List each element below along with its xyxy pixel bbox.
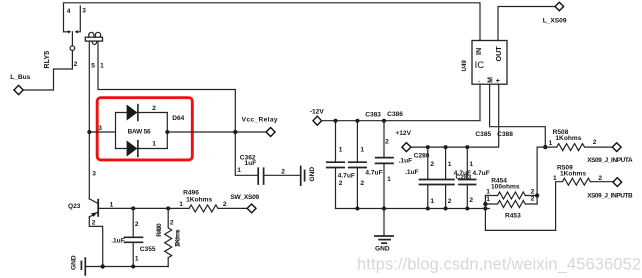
capacitor C362 plates (258, 168, 263, 184)
svg-text:-12V: -12V (310, 109, 325, 116)
connector XS09_J_INPUTB diamond (613, 178, 622, 187)
svg-text:4.7uF: 4.7uF (365, 169, 382, 176)
svg-text:+12V: +12V (395, 130, 411, 137)
node junction bus/C388 (465, 207, 469, 211)
svg-text:IC: IC (475, 60, 485, 71)
svg-text:2: 2 (170, 220, 174, 227)
svg-text:RLY5: RLY5 (42, 51, 51, 69)
node junction rail/C385 (444, 145, 448, 149)
ground sideways bars (C362) (300, 167, 302, 186)
svg-text:C386: C386 (387, 111, 403, 118)
wire node to R454/R453 right ends (537, 147, 545, 204)
wire node down to C362 (235, 132, 257, 175)
capacitor C plates (376, 158, 393, 164)
svg-text:Vcc_Relay: Vcc_Relay (242, 116, 278, 123)
D64 bottom branch wire (116, 148, 168, 150)
svg-text:GND: GND (70, 255, 77, 270)
svg-text:L_Bus: L_Bus (10, 74, 30, 81)
node junction M/R508/rail-link (543, 145, 547, 149)
svg-text:SW_XS09: SW_XS09 (230, 194, 259, 201)
svg-text:10Kohms: 10Kohms (174, 229, 181, 247)
svg-text:2: 2 (74, 61, 78, 68)
svg-text:Q23: Q23 (68, 203, 81, 210)
svg-text:2: 2 (135, 221, 139, 228)
node junction rail/C388 (465, 145, 469, 149)
relay pole link (71, 32, 73, 46)
connector Vcc_Relay diamond (266, 128, 275, 137)
svg-text:2: 2 (152, 105, 156, 112)
wire IC M pin to R508 node (490, 84, 546, 147)
node junction bus/C-B (355, 119, 359, 123)
capacitor C280 lead top (427, 147, 429, 179)
capacitor A lead bottom (335, 168, 337, 208)
svg-text:C355: C355 (140, 246, 156, 253)
svg-text:1uF: 1uF (245, 160, 257, 167)
node junction C355/ground (131, 265, 135, 269)
svg-text:L_XS09: L_XS09 (543, 18, 567, 25)
node junction rail/C280 (426, 145, 430, 149)
ground symbol 3-bar (375, 235, 393, 237)
capacitor C388 lead bottom (466, 185, 468, 208)
highlight red box around D64 (97, 98, 192, 160)
connector L_Bus diamond (14, 85, 23, 94)
svg-text:1: 1 (430, 198, 434, 205)
capacitor C388 plates (459, 180, 476, 185)
relay coil loop below core bar (92, 41, 97, 45)
node junction bus/C280 (426, 207, 430, 211)
svg-text:2: 2 (360, 180, 364, 187)
svg-text:1Kohms: 1Kohms (186, 196, 212, 203)
wire coil pin 5 lead down to Q23 collector (88, 41, 90, 199)
node junction bus/C-B (355, 207, 359, 211)
svg-text:2: 2 (339, 180, 343, 187)
wire ground rail (85, 266, 168, 268)
capacitor C lead top (383, 121, 385, 157)
Q23 collector diagonal (89, 199, 98, 204)
wire D64 pin 3 entry (89, 131, 115, 133)
node junction bus/C-A (334, 119, 338, 123)
wire R-node left vertical (484, 196, 486, 231)
svg-text:2: 2 (430, 161, 434, 168)
wire bottom return to R509 (485, 229, 555, 231)
wire GND tap (383, 209, 385, 236)
node junction R453 left (483, 202, 487, 206)
svg-text:1: 1 (486, 196, 490, 203)
svg-text:1: 1 (360, 147, 364, 154)
svg-text:1: 1 (486, 189, 490, 196)
svg-text:.: . (478, 77, 480, 84)
connector SW_XS09 diamond (247, 204, 256, 213)
resistor R454 zigzag (485, 192, 537, 199)
svg-text:3: 3 (92, 170, 96, 177)
svg-text:4.7uF: 4.7uF (473, 170, 490, 177)
wire C355 bottom lead (132, 243, 134, 267)
op-amp/regulator U49 box (472, 41, 507, 85)
node junction base/R490 (166, 206, 170, 210)
svg-text:https://blog.csdn.net/weixin_4: https://blog.csdn.net/weixin_45636052 (357, 256, 641, 274)
svg-text:C385: C385 (475, 131, 491, 138)
resistor R508 zigzag (545, 144, 612, 151)
node junction at coil lead / D64 pin3 (87, 130, 91, 134)
Q23 emitter diagonal (89, 212, 98, 217)
svg-text:2: 2 (223, 201, 227, 208)
wire relay pin 3 stub (78, 6, 80, 32)
D64 right branch vertical (166, 113, 168, 149)
svg-text:XS09_J_INPUTA: XS09_J_INPUTA (587, 157, 633, 164)
wire IC minus pin to -12V bus (322, 84, 480, 121)
svg-text:1: 1 (549, 140, 553, 147)
capacitor A lead top (335, 121, 337, 162)
svg-text:D64: D64 (172, 115, 184, 122)
svg-text:1: 1 (237, 167, 241, 174)
svg-text:1Kohms: 1Kohms (555, 135, 581, 142)
wire coil pin 1 lead to Vcc node (98, 41, 235, 132)
svg-text:IN: IN (474, 48, 483, 55)
ground sideways bars (Q23 emitter rail) (84, 258, 86, 275)
svg-text:4: 4 (67, 8, 71, 15)
node junction R454 right (535, 193, 539, 197)
node junction bus/GND tap (382, 207, 386, 211)
diode D64-B cathode bar (137, 141, 139, 157)
relay RLY5 contact pin 4 arm (64, 31, 69, 33)
D64 top branch wire (116, 112, 168, 114)
wire C355 top lead (132, 208, 134, 236)
wire capacitor bottom bus (336, 208, 490, 210)
svg-text:2: 2 (531, 189, 535, 196)
diode D64-B triangle (127, 141, 138, 157)
wire C362 pin2 to ground (264, 174, 300, 176)
svg-text:2: 2 (531, 196, 535, 203)
capacitor B lead top (356, 121, 358, 162)
svg-text:4.7uF: 4.7uF (338, 172, 355, 179)
svg-text:GND: GND (375, 246, 390, 253)
svg-text:100ohms: 100ohms (491, 183, 520, 190)
capacitor C385 plates (437, 180, 454, 185)
capacitor B lead bottom (356, 168, 358, 208)
wire relay pin 2 to L_Bus (23, 51, 72, 91)
relay coil core bar (85, 37, 102, 41)
svg-text:C383: C383 (365, 112, 381, 119)
svg-text:C388: C388 (497, 131, 513, 138)
capacitor A plates (327, 162, 344, 167)
Q23 emitter arrow (PNP) (91, 212, 97, 217)
relay coil loops above core bar (89, 32, 94, 38)
capacitor C388 lead top (466, 147, 468, 179)
svg-text:.1uF: .1uF (399, 157, 413, 164)
capacitor C280 lead bottom (427, 185, 429, 208)
svg-text:2: 2 (469, 197, 473, 204)
svg-text:1: 1 (110, 201, 114, 208)
connector L_XS09 diamond (555, 2, 564, 11)
svg-text:1: 1 (387, 176, 391, 183)
wire OUT pin to L_XS09 (498, 7, 555, 41)
node junction bus/C-C (382, 119, 386, 123)
node D64 output junction (165, 130, 169, 134)
capacitor C280 plates (420, 180, 437, 185)
svg-text:1Kohms: 1Kohms (560, 170, 586, 177)
diode D64-A cathode bar (137, 105, 139, 121)
node junction Vcc/C362/coil (233, 130, 237, 134)
capacitor C lead bottom (383, 164, 385, 209)
svg-text:GND: GND (309, 167, 316, 182)
resistor R453 zigzag (485, 201, 537, 208)
svg-text:XS09_J_INPUTB: XS09_J_INPUTB (587, 193, 633, 200)
connector +12V diamond (402, 143, 411, 152)
relay pivot circle (70, 46, 75, 51)
svg-text:R453: R453 (505, 213, 521, 220)
node junction bus/R-node (483, 207, 487, 211)
svg-text:.1uF: .1uF (405, 169, 419, 176)
wire +12V rail to IC plus pin (411, 84, 499, 147)
relay RLY5 contact pin 3 arrowhead (75, 30, 78, 33)
svg-text:1: 1 (152, 141, 156, 148)
wire D64 output to Vcc_Relay (167, 131, 266, 133)
svg-text:5: 5 (91, 62, 95, 69)
wire top bus from relay pin4 to IC IN pin (64, 3, 481, 41)
resistor R490 zigzag (165, 208, 172, 266)
node junction bus/C385 (444, 207, 448, 211)
svg-text:1: 1 (469, 161, 473, 168)
wire Q23 emitter to ground rail (89, 217, 102, 267)
svg-text:3: 3 (82, 8, 86, 15)
svg-text:1: 1 (179, 201, 183, 208)
node junction base/C355 (131, 206, 135, 210)
svg-text:1: 1 (100, 62, 104, 69)
svg-text:U49: U49 (461, 60, 468, 72)
resistor R496 zigzag (189, 205, 247, 212)
svg-text:2: 2 (593, 139, 597, 146)
svg-text:3: 3 (98, 125, 102, 132)
svg-text:2: 2 (448, 198, 452, 205)
svg-text:1: 1 (339, 147, 343, 154)
diode D64-A triangle (127, 105, 138, 121)
capacitor C385 lead top (445, 147, 447, 179)
D64 left branch vertical (115, 113, 117, 149)
wire Q23 base row (98, 207, 189, 209)
svg-text:R490: R490 (156, 223, 163, 237)
svg-text:BAW 56: BAW 56 (128, 129, 151, 136)
node junction emitter/ground (101, 264, 105, 268)
connector -12V diamond (313, 116, 322, 125)
capacitor C355 plates (125, 237, 143, 242)
resistor R509 zigzag (556, 178, 613, 230)
svg-text:2: 2 (281, 168, 285, 175)
svg-text:OUT: OUT (494, 46, 503, 62)
capacitor B plates (349, 162, 366, 167)
svg-text:M: M (488, 77, 495, 83)
connector XS09_J_INPUTA diamond (612, 143, 621, 152)
transistor Q23 base bar (97, 200, 99, 216)
svg-text:2: 2 (92, 219, 96, 226)
capacitor C385 lead bottom (445, 185, 447, 208)
svg-text:2: 2 (385, 139, 389, 146)
svg-text:1: 1 (448, 161, 452, 168)
svg-text:1: 1 (553, 175, 557, 182)
svg-text:.1uF: .1uF (111, 238, 125, 245)
svg-text:2: 2 (598, 175, 602, 182)
svg-text:1: 1 (135, 256, 139, 263)
